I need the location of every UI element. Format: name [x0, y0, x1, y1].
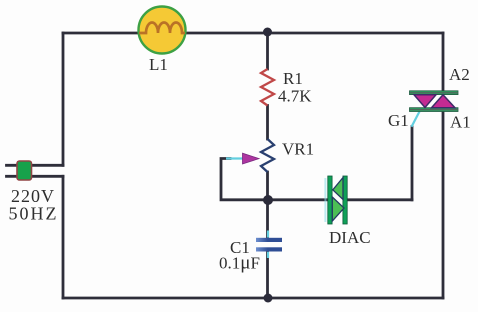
svg-text:A2: A2	[449, 65, 470, 84]
svg-text:DIAC: DIAC	[329, 228, 371, 247]
svg-text:A1: A1	[450, 113, 471, 132]
svg-text:0.1μF: 0.1μF	[219, 253, 260, 274]
svg-text:4.7K: 4.7K	[278, 87, 312, 106]
svg-text:50HZ: 50HZ	[9, 204, 59, 224]
svg-text:VR1: VR1	[282, 140, 314, 159]
svg-text:L1: L1	[149, 55, 168, 74]
svg-text:R1: R1	[283, 69, 303, 88]
svg-text:G1: G1	[388, 111, 409, 130]
